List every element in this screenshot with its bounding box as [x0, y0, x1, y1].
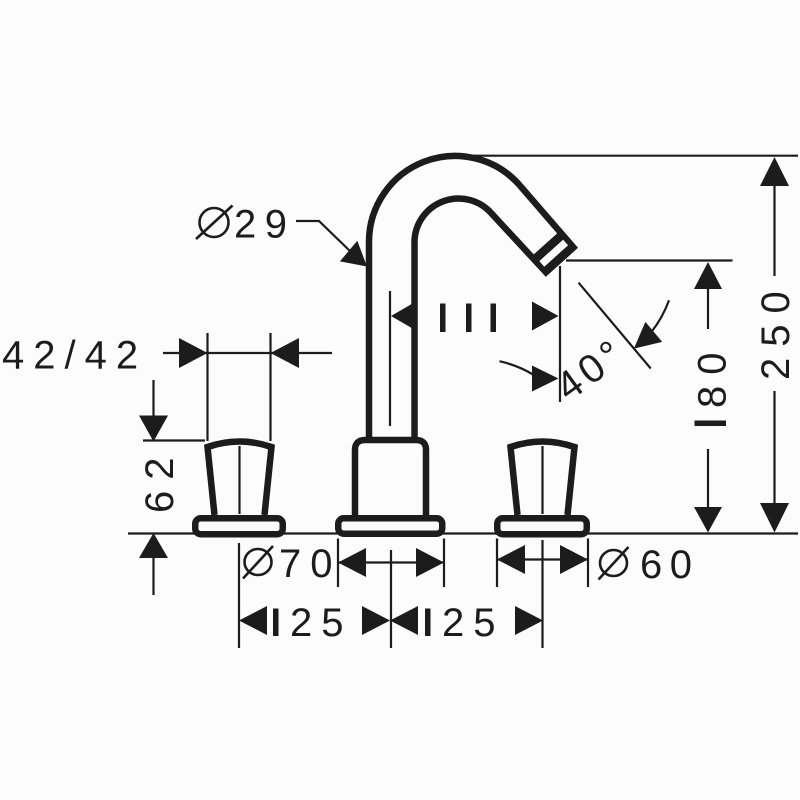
dim 42/42 line: [163, 352, 208, 354]
dim 62 vertical lines: [152, 380, 154, 416]
svg-text:29: 29: [234, 203, 296, 247]
svg-text:60: 60: [640, 543, 700, 587]
label 111: [440, 304, 496, 333]
base plate left: [195, 518, 283, 534]
spout tube outline: [369, 156, 574, 444]
arrow 180 bottom: [694, 507, 722, 533]
dim 180 extension line outlet height: [566, 259, 733, 261]
wire deck line: [128, 532, 798, 534]
svg-text:25: 25: [290, 601, 353, 645]
svg-text:80: 80: [691, 342, 735, 409]
arrow 250 top: [760, 157, 789, 186]
svg-text:25: 25: [442, 601, 505, 645]
arrow 125 left: [239, 606, 267, 635]
arrow O60 left: [497, 545, 525, 574]
handle left body: [208, 442, 272, 516]
node handle right centerline lower: [541, 540, 543, 648]
dim 180 vertical line: [707, 289, 709, 329]
arrow 125 right: [515, 606, 543, 635]
dim 62 extension line handle top: [143, 439, 205, 441]
arrow O29 leader: [340, 241, 367, 267]
spout tip outlet stripe: [542, 243, 566, 264]
node spout centerline upper: [389, 291, 391, 426]
leader O29: [296, 221, 352, 253]
arrow O70 left: [338, 548, 366, 577]
arrow 250 bottom: [760, 503, 789, 533]
node handle left centerline: [238, 446, 240, 514]
dim O70 extension lines: [337, 539, 339, 588]
base plate right: [497, 518, 587, 534]
dim 40 left arc: [500, 361, 534, 375]
arrow 40 left: [532, 366, 559, 392]
arrow 111 right: [532, 302, 559, 331]
wire top extension line 250: [448, 155, 798, 157]
base plate center: [338, 518, 442, 534]
dim O70 line: [338, 561, 444, 563]
label O29: [200, 208, 229, 237]
svg-text:42/42: 42/42: [2, 334, 147, 378]
arrow 40 right: [634, 322, 662, 349]
arrow 62 bottom: [139, 533, 168, 558]
arrow O70 right: [416, 548, 444, 577]
label 180: [695, 421, 727, 427]
node tip vertical extension line: [559, 266, 561, 402]
dim 42/42 extension lines: [206, 333, 208, 441]
node spout centerline lower: [390, 550, 392, 648]
arrow O60 right: [560, 545, 588, 574]
dim 40 diagonal line: [579, 283, 651, 369]
arrow 125 center left: [362, 606, 390, 635]
dim 250 vertical line: [773, 186, 775, 276]
dim O60 extension lines: [496, 539, 498, 588]
svg-text:70: 70: [279, 542, 342, 586]
arrow 42/42 left: [179, 338, 208, 368]
svg-text:250: 250: [754, 280, 798, 380]
dim 40 right arc: [651, 300, 669, 332]
arrow 111 left: [391, 302, 416, 331]
spout tip cap: [532, 232, 573, 272]
label O60: [600, 550, 627, 576]
handle right body: [511, 442, 575, 516]
label 125 left: [273, 609, 279, 637]
arrow 125 center right: [390, 606, 418, 635]
svg-text:62: 62: [138, 447, 182, 514]
node handle left centerline lower: [238, 543, 240, 648]
node handle right centerline: [541, 446, 543, 514]
dim O60 line: [497, 558, 588, 560]
label O70: [245, 549, 272, 575]
arrow 62 top: [139, 416, 168, 442]
arrow 180 top: [694, 262, 722, 289]
spout base block: [355, 440, 426, 518]
arrow 42/42 right: [271, 338, 300, 368]
label 125 right: [425, 609, 431, 637]
